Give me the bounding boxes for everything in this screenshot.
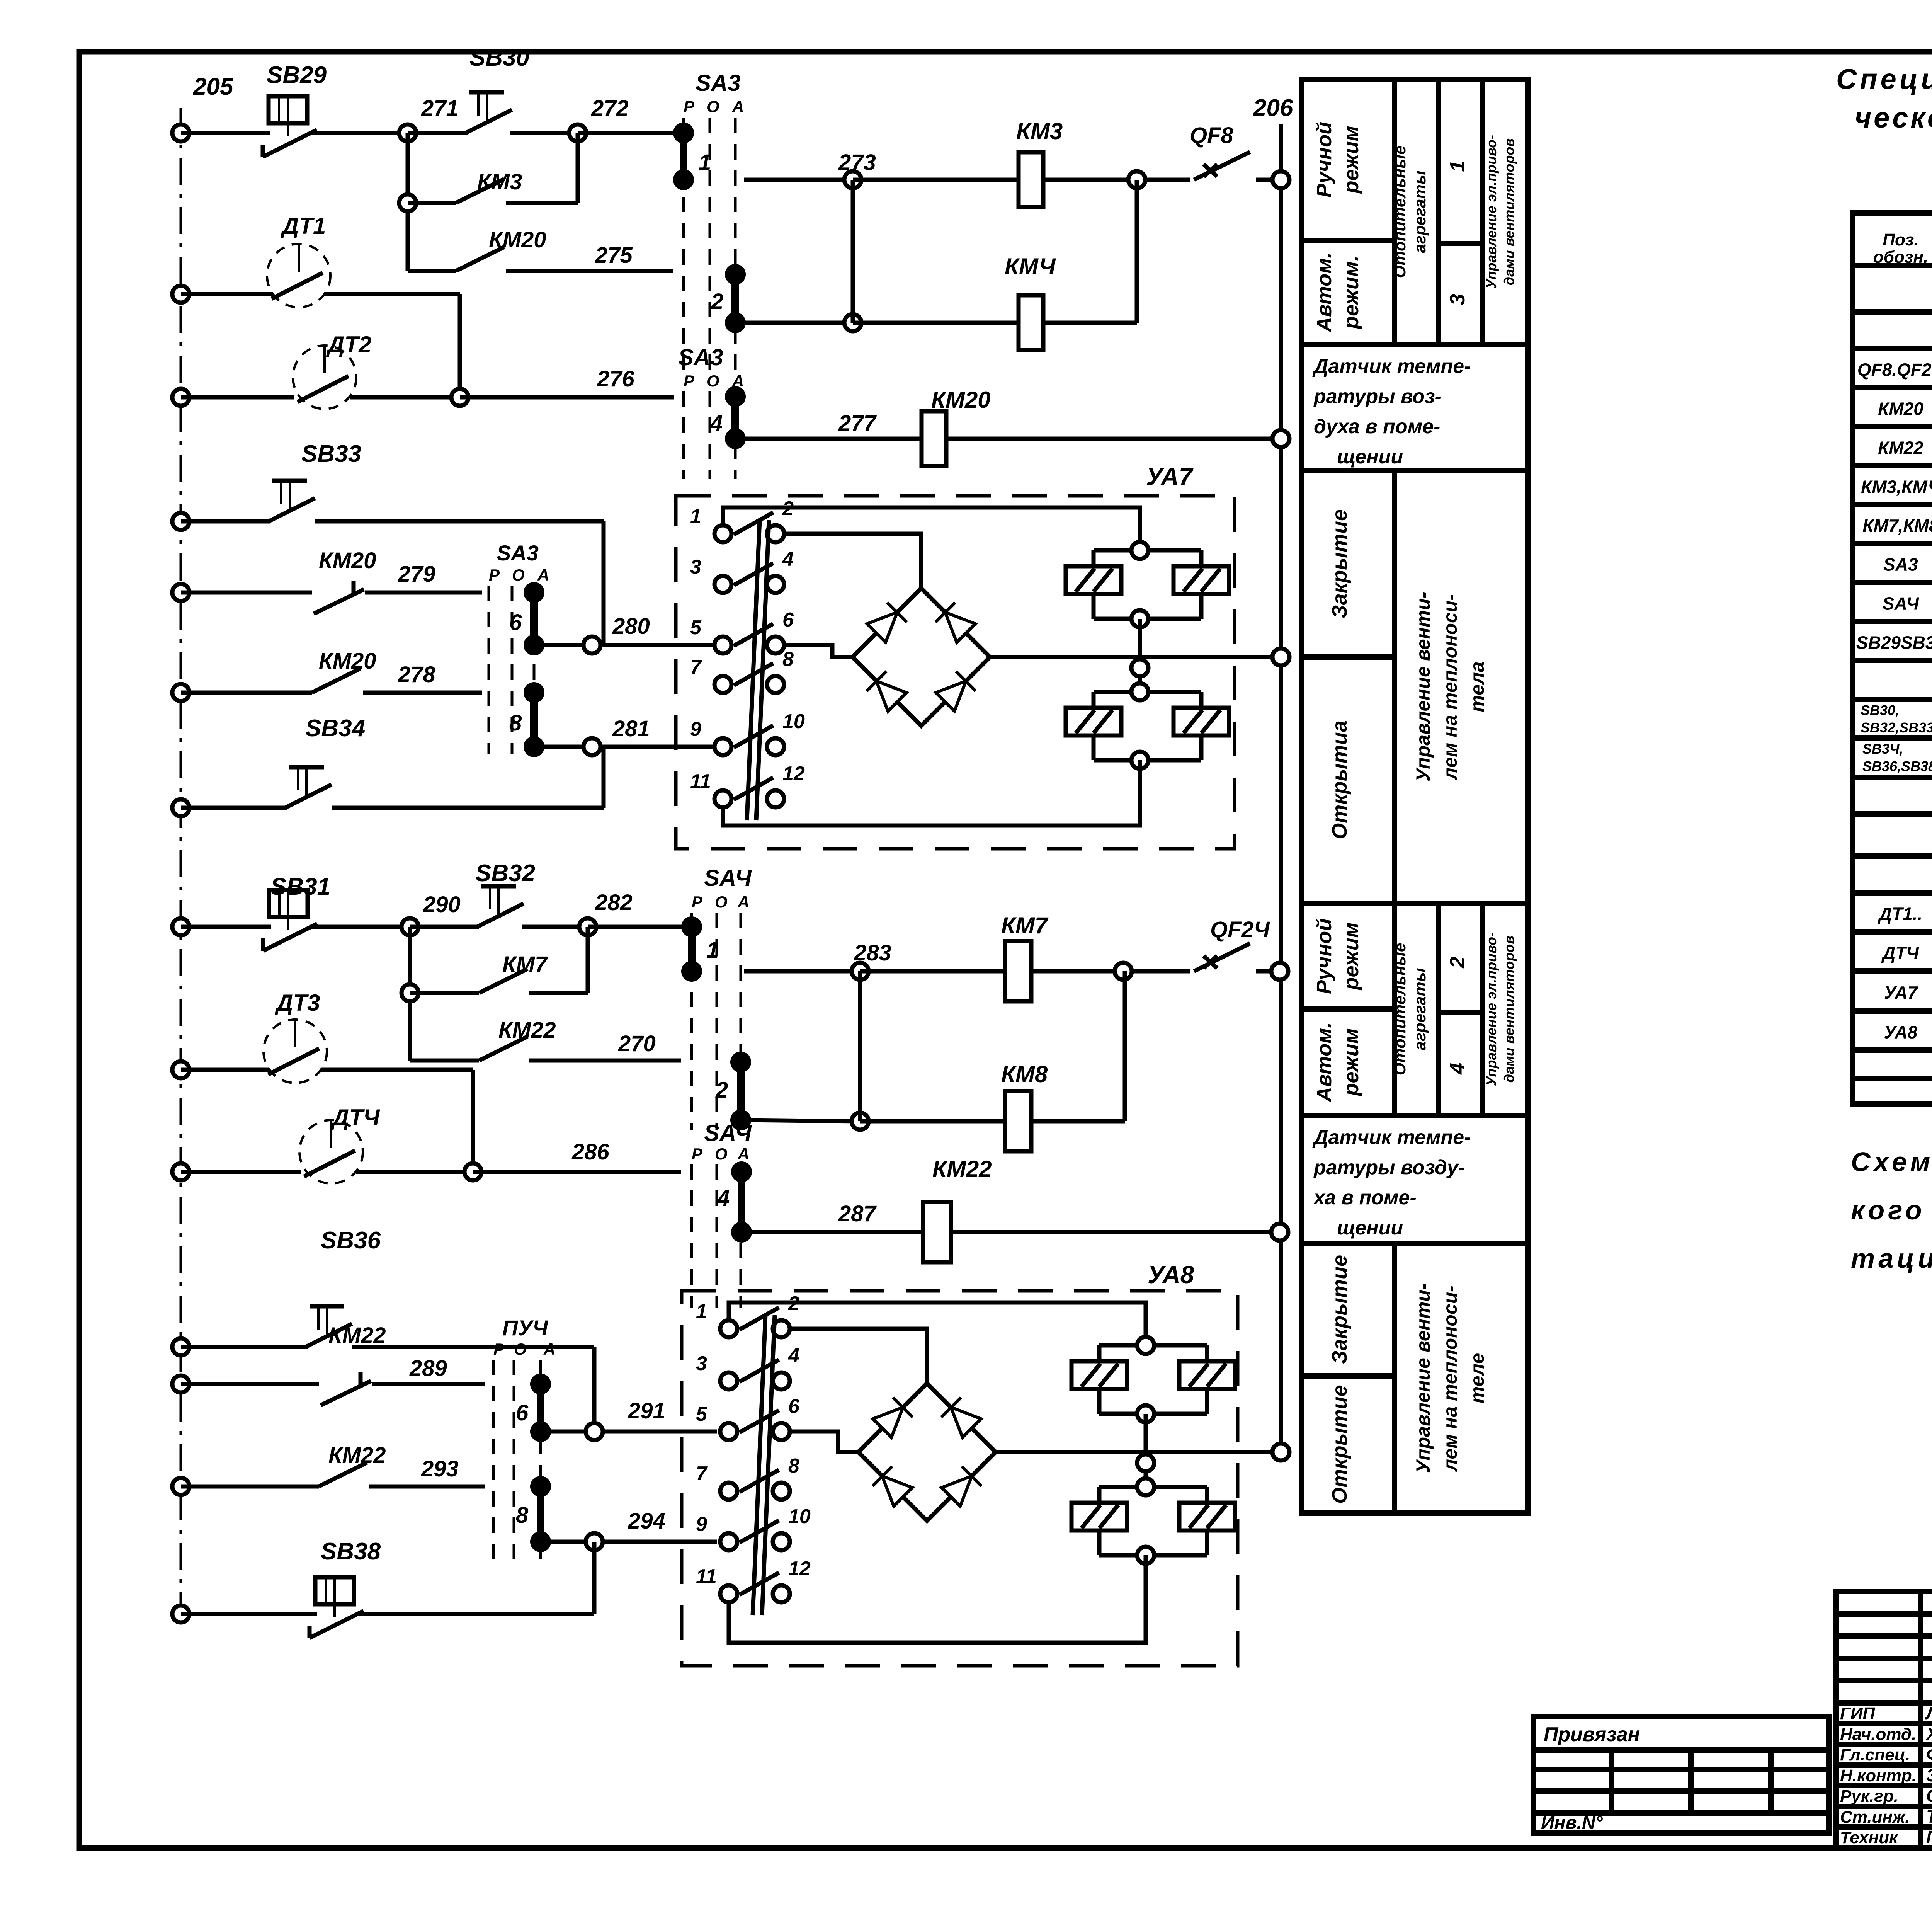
svg-text:SАЧ: SАЧ <box>1883 594 1920 614</box>
svg-text:тела: тела <box>1466 661 1488 712</box>
svg-text:A: A <box>732 97 744 116</box>
svg-text:дами вентиляторов: дами вентиляторов <box>1501 138 1517 285</box>
svg-text:Датчик темпе-: Датчик темпе- <box>1312 1126 1471 1149</box>
svg-text:Управление венти-: Управление венти- <box>1412 1283 1434 1473</box>
svg-text:КМ22: КМ22 <box>498 1018 556 1043</box>
svg-text:1: 1 <box>696 1300 707 1323</box>
svg-text:SA3: SA3 <box>696 70 741 96</box>
svg-text:Открытиа: Открытиа <box>1328 720 1351 839</box>
svg-text:Датчик темпе-: Датчик темпе- <box>1312 355 1471 378</box>
svg-text:КМ22: КМ22 <box>328 1443 386 1468</box>
svg-text:SB36,SB38: SB36,SB38 <box>1862 758 1932 774</box>
svg-text:ческой схемы управления ото: ческой схемы управления отопительными <box>1855 102 1932 134</box>
svg-text:1: 1 <box>699 150 711 175</box>
svg-text:10: 10 <box>788 1505 811 1528</box>
svg-text:КМ20: КМ20 <box>319 649 376 674</box>
svg-text:КМ3: КМ3 <box>477 169 522 194</box>
svg-text:Отопительные: Отопительные <box>1391 146 1409 278</box>
svg-text:2: 2 <box>715 1078 728 1103</box>
svg-text:QF2Ч: QF2Ч <box>1210 917 1270 942</box>
svg-text:щении: щении <box>1337 1217 1403 1239</box>
svg-text:SАЧ: SАЧ <box>704 865 752 891</box>
svg-text:O: O <box>707 372 719 390</box>
svg-text:287: 287 <box>838 1201 877 1226</box>
svg-text:9: 9 <box>690 718 701 741</box>
svg-text:6: 6 <box>788 1395 800 1418</box>
svg-text:273: 273 <box>838 150 876 175</box>
svg-text:ратуры воз-: ратуры воз- <box>1313 385 1442 408</box>
svg-text:QF8: QF8 <box>1190 123 1234 148</box>
svg-text:5: 5 <box>690 616 702 639</box>
svg-text:щении: щении <box>1337 446 1403 468</box>
svg-text:O: O <box>512 566 525 584</box>
svg-text:4: 4 <box>717 1186 730 1211</box>
svg-text:SB36: SB36 <box>321 1227 381 1254</box>
svg-text:КМ22: КМ22 <box>328 1323 386 1348</box>
svg-text:УА8: УА8 <box>1148 1261 1194 1289</box>
svg-text:Отопительные: Отопительные <box>1391 943 1409 1076</box>
svg-text:3: 3 <box>696 1352 707 1375</box>
svg-text:O: O <box>514 1340 527 1358</box>
svg-text:режим: режим <box>1340 923 1363 991</box>
svg-text:КМ20: КМ20 <box>489 227 546 252</box>
svg-text:Инв.N°: Инв.N° <box>1541 1813 1603 1833</box>
svg-text:8: 8 <box>509 710 522 735</box>
svg-text:Открытие: Открытие <box>1328 1385 1351 1504</box>
svg-text:Закрытие: Закрытие <box>1328 1255 1351 1364</box>
svg-text:КМ7: КМ7 <box>1001 913 1049 938</box>
svg-text:SA3: SA3 <box>1883 555 1918 575</box>
svg-text:КМ22: КМ22 <box>1878 438 1923 458</box>
svg-text:КМ7: КМ7 <box>502 952 548 977</box>
svg-text:8: 8 <box>782 648 794 671</box>
svg-text:279: 279 <box>398 562 435 587</box>
svg-text:SB38: SB38 <box>321 1538 381 1565</box>
svg-text:SB29SB31: SB29SB31 <box>1856 633 1932 653</box>
svg-text:281: 281 <box>612 716 650 741</box>
svg-text:4: 4 <box>710 411 723 436</box>
svg-text:Автом.: Автом. <box>1313 252 1336 333</box>
svg-text:5: 5 <box>696 1403 707 1425</box>
svg-text:12: 12 <box>788 1558 811 1580</box>
svg-text:P: P <box>684 372 695 390</box>
svg-text:SB29: SB29 <box>267 62 327 89</box>
svg-text:Леонов: Леонов <box>1925 1703 1932 1723</box>
svg-text:Гл.спец.: Гл.спец. <box>1840 1745 1910 1764</box>
svg-text:обозн.: обозн. <box>1873 248 1928 267</box>
svg-text:290: 290 <box>423 892 461 917</box>
svg-text:206: 206 <box>1253 95 1293 121</box>
svg-text:КМ20: КМ20 <box>319 548 376 573</box>
svg-text:SАЧ: SАЧ <box>704 1120 752 1146</box>
svg-text:SB30: SB30 <box>469 44 529 71</box>
svg-text:4: 4 <box>788 1345 799 1367</box>
svg-text:10: 10 <box>782 710 805 733</box>
svg-text:КМЧ: КМЧ <box>1005 254 1056 279</box>
svg-text:A: A <box>537 566 549 584</box>
svg-text:P: P <box>489 566 500 584</box>
svg-text:205: 205 <box>193 73 234 100</box>
svg-text:Гайворонский: Гайворонский <box>1926 1827 1932 1847</box>
svg-text:УА7: УА7 <box>1884 982 1918 1003</box>
svg-text:286: 286 <box>571 1139 610 1165</box>
svg-text:КМ20: КМ20 <box>1878 399 1923 419</box>
svg-text:11: 11 <box>696 1565 717 1588</box>
svg-text:Техник: Техник <box>1840 1828 1899 1847</box>
svg-text:Привязан: Привязан <box>1544 1723 1640 1746</box>
svg-text:Закрытие: Закрытие <box>1328 509 1351 618</box>
svg-text:SB32: SB32 <box>475 860 535 887</box>
svg-text:2: 2 <box>1446 957 1469 969</box>
svg-text:кого описания и инструкции: кого описания и инструкции по эксплуа- <box>1851 1195 1932 1225</box>
svg-text:духа в поме-: духа в поме- <box>1314 415 1440 438</box>
svg-text:SB34: SB34 <box>305 715 365 742</box>
svg-text:режим.: режим. <box>1340 255 1363 330</box>
svg-text:УА7: УА7 <box>1146 463 1194 490</box>
svg-text:лем на теплоноси-: лем на теплоноси- <box>1439 594 1461 780</box>
svg-text:294: 294 <box>628 1508 665 1534</box>
svg-text:289: 289 <box>409 1356 447 1381</box>
svg-text:6: 6 <box>782 609 794 631</box>
svg-text:12: 12 <box>782 763 805 785</box>
svg-text:P: P <box>493 1340 505 1358</box>
svg-text:Ст.инж.: Ст.инж. <box>1840 1808 1910 1827</box>
svg-text:293: 293 <box>421 1456 459 1481</box>
svg-text:SB31: SB31 <box>270 873 330 900</box>
svg-text:УА8: УА8 <box>1884 1022 1918 1042</box>
svg-text:лем на теплоноси-: лем на теплоноси- <box>1439 1285 1461 1472</box>
svg-text:Н.контр.: Н.контр. <box>1840 1766 1917 1785</box>
svg-text:Фукс: Фукс <box>1926 1744 1932 1764</box>
svg-text:КМ22: КМ22 <box>932 1156 992 1182</box>
svg-text:283: 283 <box>854 940 891 965</box>
svg-text:Спецификация принципиальной: Спецификация принципиальной электри- <box>1836 63 1932 95</box>
svg-text:4: 4 <box>782 548 794 570</box>
svg-text:режим: режим <box>1340 1028 1363 1097</box>
svg-text:ДТ2: ДТ2 <box>326 332 371 358</box>
svg-text:A: A <box>543 1340 555 1358</box>
svg-text:ПУЧ: ПУЧ <box>502 1316 548 1340</box>
svg-text:режим: режим <box>1340 126 1363 194</box>
svg-text:3: 3 <box>690 556 701 578</box>
svg-text:4: 4 <box>1446 1063 1469 1075</box>
svg-text:ратуры возду-: ратуры возду- <box>1313 1156 1465 1179</box>
svg-text:SB30,: SB30, <box>1861 702 1899 718</box>
svg-text:ДТ1: ДТ1 <box>280 213 326 239</box>
svg-text:271: 271 <box>421 96 459 121</box>
svg-text:O: O <box>707 97 719 116</box>
svg-text:9: 9 <box>696 1513 707 1536</box>
svg-text:теле: теле <box>1466 1353 1488 1403</box>
svg-text:272: 272 <box>591 96 629 121</box>
svg-text:278: 278 <box>398 662 436 687</box>
svg-text:P: P <box>684 97 695 116</box>
svg-text:7: 7 <box>690 656 702 678</box>
svg-text:ГИП: ГИП <box>1840 1704 1876 1723</box>
svg-text:SA3: SA3 <box>678 344 723 370</box>
svg-text:КМ20: КМ20 <box>931 387 991 413</box>
svg-text:O: O <box>715 893 728 911</box>
svg-text:ха в поме-: ха в поме- <box>1313 1187 1417 1209</box>
svg-text:Нач.отд.: Нач.отд. <box>1840 1725 1916 1744</box>
svg-text:P: P <box>692 893 703 911</box>
svg-text:Автом.: Автом. <box>1313 1022 1336 1103</box>
svg-text:7: 7 <box>696 1462 708 1485</box>
svg-text:Христофоров: Христофоров <box>1925 1724 1932 1744</box>
svg-text:КМ8: КМ8 <box>1001 1061 1048 1087</box>
svg-text:Управление эл.приво-: Управление эл.приво- <box>1483 135 1499 289</box>
svg-text:SA3: SA3 <box>497 541 539 565</box>
svg-text:1: 1 <box>1446 160 1469 172</box>
svg-text:O: O <box>715 1145 728 1163</box>
svg-text:1: 1 <box>706 938 719 963</box>
svg-text:P: P <box>692 1145 703 1163</box>
svg-text:тации УКАС-М, черт ЖБИК. 656.: тации УКАС-М, черт ЖБИК. 656.461. 033 Э3… <box>1851 1243 1932 1273</box>
svg-text:SB32,SB33: SB32,SB33 <box>1861 720 1932 735</box>
svg-text:КМ3,КМЧ: КМ3,КМЧ <box>1861 477 1932 497</box>
svg-text:SB3Ч,: SB3Ч, <box>1862 741 1903 757</box>
svg-text:Ручной: Ручной <box>1313 122 1336 197</box>
svg-text:6: 6 <box>516 1400 529 1425</box>
svg-text:291: 291 <box>628 1398 665 1423</box>
svg-text:2: 2 <box>711 289 723 314</box>
svg-text:Управление венти-: Управление венти- <box>1412 592 1434 781</box>
svg-text:11: 11 <box>690 770 711 793</box>
svg-text:8: 8 <box>516 1503 529 1528</box>
svg-text:Схема выполнена на основани: Схема выполнена на основании техничес- <box>1851 1147 1932 1177</box>
svg-text:ДТ3: ДТ3 <box>274 990 320 1016</box>
svg-text:277: 277 <box>838 411 877 436</box>
svg-text:ДТ1..: ДТ1.. <box>1878 904 1922 924</box>
svg-text:270: 270 <box>618 1031 656 1056</box>
svg-text:Рук.гр.: Рук.гр. <box>1840 1787 1898 1806</box>
svg-text:1: 1 <box>690 505 701 528</box>
svg-text:агрегаты: агрегаты <box>1411 968 1429 1050</box>
svg-text:282: 282 <box>595 890 633 915</box>
svg-text:275: 275 <box>595 243 633 268</box>
svg-text:Золотарева: Золотарева <box>1926 1765 1932 1785</box>
svg-text:3: 3 <box>1446 294 1469 305</box>
svg-text:280: 280 <box>612 614 650 639</box>
svg-text:A: A <box>737 893 749 911</box>
svg-text:QF8.QF2Ч: QF8.QF2Ч <box>1857 360 1932 380</box>
svg-text:Управление эл.приво-: Управление эл.приво- <box>1483 932 1499 1086</box>
svg-text:276: 276 <box>597 366 635 392</box>
svg-text:8: 8 <box>788 1455 799 1477</box>
svg-text:ДТЧ: ДТЧ <box>330 1105 380 1130</box>
svg-text:КМ3: КМ3 <box>1016 118 1063 144</box>
svg-text:Ручной: Ручной <box>1313 918 1336 994</box>
svg-text:агрегаты: агрегаты <box>1411 170 1429 253</box>
svg-text:КМ7,КМ8: КМ7,КМ8 <box>1862 516 1932 536</box>
svg-text:A: A <box>737 1145 749 1163</box>
svg-text:SB33: SB33 <box>301 441 361 467</box>
svg-text:Поз.: Поз. <box>1883 230 1918 249</box>
svg-text:6: 6 <box>509 610 522 635</box>
svg-text:Таболина: Таболина <box>1926 1806 1932 1827</box>
svg-text:Седых: Седых <box>1926 1786 1932 1806</box>
svg-text:ДТЧ: ДТЧ <box>1881 943 1919 963</box>
svg-text:дами вентиляторов: дами вентиляторов <box>1501 936 1517 1083</box>
